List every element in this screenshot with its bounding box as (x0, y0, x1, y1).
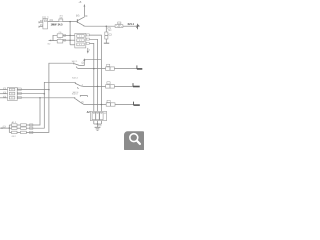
svg-text:1MW: 1MW (51, 23, 57, 26)
label RB2 out (30, 127, 33, 129)
node C1 tap (69, 35, 71, 37)
wire D1 to terminal (123, 25, 137, 27)
wire A12 bus (8, 125, 10, 132)
pin label K1 lead3 (3, 96, 5, 97)
label D1 (118, 22, 121, 24)
wire S42.1 out up (79, 59, 101, 65)
arrowhead actuator up (83, 58, 85, 61)
wire corner into U1 pin3 (70, 44, 75, 46)
label K1 out1 C8 (18, 88, 22, 90)
wire K1 lead3 (0, 97, 8, 99)
svg-text:NC: NC (108, 30, 112, 32)
wire C join left (50, 35, 57, 40)
wire L2 to term (114, 85, 133, 87)
wire A12 row2 (9, 127, 11, 129)
svg-text:G12: G12 (12, 136, 17, 138)
label K1 out2 C9 (18, 92, 22, 94)
node base junction (69, 21, 71, 23)
wire RB2 riser (26, 94, 44, 129)
capacitor C1 (57, 34, 63, 38)
wire down to R2 (105, 26, 107, 32)
wire L1 to term (114, 68, 136, 70)
label node (108, 28, 111, 29)
left block K1 (8, 88, 18, 101)
pin label K1 lead1 (3, 88, 5, 89)
label L3 (107, 100, 110, 102)
node join (97, 123, 99, 125)
label RB1 out (30, 124, 33, 126)
relay block U1 (75, 34, 86, 48)
wire R1 to base node (63, 21, 78, 23)
svg-text:(M): (M) (76, 16, 80, 18)
node row3 bus3 (101, 104, 103, 106)
wire pin2 left lead (39, 26, 43, 28)
wire pin1 left lead (39, 21, 43, 23)
node A12 (9, 127, 10, 128)
label U1 out2 (86, 38, 89, 40)
riser B wire (44, 82, 75, 93)
wire U1 out2 to bus2 (89, 39, 97, 111)
pin label A12 input (3, 126, 5, 127)
wire A12 row3 (9, 131, 11, 133)
transistor Q1 (77, 17, 84, 26)
resistor RB2 (21, 127, 27, 129)
wire to ground (97, 124, 99, 127)
resistor RA1 (12, 124, 18, 126)
arrow ground left (48, 40, 51, 42)
wire emitter run (85, 25, 116, 27)
label U1 out1 (86, 34, 89, 36)
svg-text:d: d (89, 50, 91, 52)
wire R2 to ground (105, 39, 107, 43)
switch S42.3 (75, 95, 81, 103)
wire row R2 to riser B (17, 93, 44, 95)
svg-text:A1.2: A1.2 (12, 121, 17, 124)
wire C2 to U1 (63, 39, 75, 41)
label near S42.3 blade (82, 102, 83, 103)
label K1 out3 H6 (18, 96, 22, 98)
svg-text:S42.4: S42.4 (72, 77, 78, 79)
label R2b (109, 34, 111, 35)
wire row3 lamps (81, 103, 106, 105)
wire S21 output (48, 21, 59, 23)
label C1 pin (64, 34, 66, 36)
connector X2 (90, 111, 106, 120)
resistor RB1 (21, 124, 27, 126)
wire mid row1 (17, 124, 21, 126)
lamp L3 (106, 103, 115, 106)
ground bar (104, 42, 109, 44)
node row1 bus1 (93, 68, 95, 70)
wire row2 lamps (81, 85, 106, 88)
label L1 (107, 64, 110, 66)
wire join bar (94, 123, 102, 125)
wire L3 to term (115, 104, 133, 106)
wire row R3 to switch C (17, 97, 75, 99)
pin label K1 lead2 (3, 92, 5, 93)
wire U1 out1 to bus3 (89, 35, 101, 112)
terminal T2 (133, 83, 140, 86)
node R1 riser (48, 89, 50, 91)
wire A12 row1 (9, 124, 11, 126)
node emitter junction (106, 25, 108, 27)
wire K1 lead2 (0, 93, 8, 95)
wire U1 out3 to bus1 (89, 43, 93, 111)
resistor R1 (59, 19, 63, 22)
lamp L1 (106, 67, 115, 70)
pin mark a on collector (86, 15, 87, 16)
resistor RB3 (21, 131, 27, 133)
label a near S42.1 (82, 62, 83, 64)
capacitor C2 (57, 39, 63, 43)
switch S42.4 (75, 82, 80, 89)
resistor R2 vertical (105, 32, 108, 39)
svg-text:A2: A2 (87, 111, 91, 114)
terminal cross 31 (136, 24, 140, 30)
wire S42.3 nc contact (80, 96, 87, 97)
terminal T1 (137, 65, 142, 69)
node R2 riser (44, 93, 46, 95)
wire row R1 to riser A (17, 89, 49, 91)
switch S42.1 (74, 63, 79, 69)
node riser row3 (39, 97, 40, 98)
diode box D1 (115, 25, 123, 28)
lamp L2 (106, 85, 115, 88)
svg-text:34.5: 34.5 (58, 23, 63, 26)
wire row1 lamps (77, 68, 105, 70)
ground G (95, 127, 101, 130)
wire pin stubs to bar (94, 121, 102, 124)
resistor RA3 (12, 131, 18, 133)
label RB3 out (30, 131, 33, 133)
node row2 bus2 (97, 86, 99, 88)
node C2 tap (69, 39, 71, 41)
wire C1 to U1 (63, 34, 75, 36)
riser A wire (49, 63, 74, 89)
bottom block A12 input (0, 127, 9, 129)
pin label 2 (40, 25, 42, 26)
actuator arrow from U1 (87, 48, 89, 52)
svg-text:+B: +B (78, 1, 81, 4)
svg-text:S21.2: S21.2 (42, 16, 49, 19)
label join (99, 125, 101, 126)
wire mid row3 (17, 131, 21, 133)
wire K1 lead1 (0, 89, 8, 91)
svg-text:G2: G2 (47, 44, 51, 46)
pin label 1 (40, 20, 42, 21)
resistor RA2 (12, 127, 18, 129)
wire collector up with arrow (83, 6, 85, 17)
wire base node down (69, 22, 71, 45)
pin marks (93, 113, 102, 115)
label U1 out3 (86, 42, 89, 44)
magnifier button (124, 131, 146, 152)
svg-text:S42.1: S42.1 (72, 61, 78, 63)
wire mid row2 (17, 127, 21, 129)
svg-text:S42.3: S42.3 (72, 94, 78, 96)
label L2 (107, 82, 110, 84)
svg-text:X21.1: X21.1 (128, 23, 135, 26)
relay S21.2 (43, 19, 48, 29)
label pin above wire (50, 20, 53, 21)
arrowhead supply (84, 4, 86, 7)
label C2 pin (64, 39, 66, 41)
wire RB1 riser (26, 98, 40, 125)
wire RB3 riser (26, 90, 49, 133)
terminal T3 (134, 102, 140, 106)
